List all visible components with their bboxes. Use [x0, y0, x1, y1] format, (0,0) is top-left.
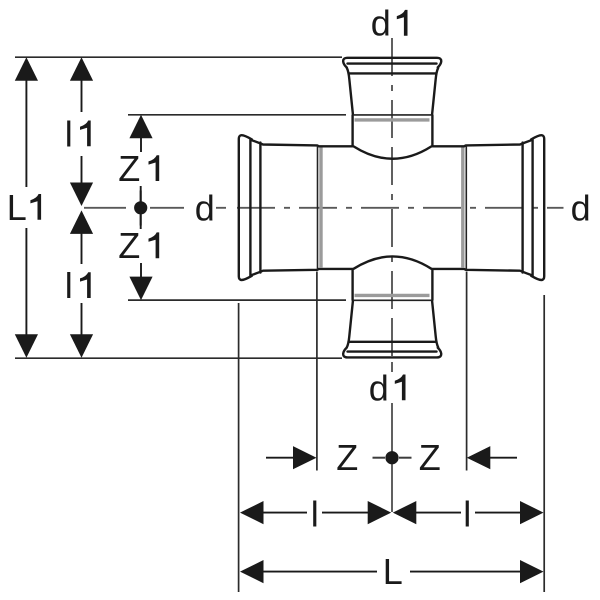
svg-text:L: L: [383, 551, 403, 592]
svg-text:Z: Z: [118, 148, 140, 189]
bottom-left body/neck outline: [252, 269, 353, 348]
svg-text:l: l: [65, 265, 73, 306]
center reference dot (Z1): [134, 201, 147, 214]
svg-text:d: d: [371, 3, 391, 44]
bottom insertion mark: [355, 294, 430, 297]
vertical centerline solid extension through Z dot to l dimension: [391, 403, 393, 512]
top insertion mark: [355, 118, 430, 121]
svg-text:L: L: [7, 187, 27, 228]
top-left body/neck outline: [252, 68, 353, 147]
left press bead inner tangent: [249, 140, 251, 277]
top press bead (d1 socket): [343, 58, 441, 68]
right socket flare-sleeve tangent: [521, 143, 523, 273]
fitting body outline: [239, 58, 544, 358]
extension line bottom socket joint (Z1 lower): [128, 299, 346, 301]
dimension L row: [240, 560, 544, 583]
extension line bottom (fitting bottom): [15, 357, 342, 359]
svg-text:Z: Z: [419, 437, 441, 478]
right socket joint line: [465, 146, 467, 270]
left socket joint line: [317, 146, 319, 270]
bottom press bead (d1 socket): [343, 348, 441, 358]
ticks beside Z dot: [373, 457, 386, 459]
extension line right insertion mark (Z): [466, 272, 468, 471]
svg-text:l: l: [311, 494, 319, 535]
tick through Z1 dot: [140, 191, 142, 226]
extension lines: [15, 57, 544, 592]
left press bead: [239, 135, 252, 280]
svg-text:d: d: [369, 367, 389, 408]
extension line fitting left end: [238, 303, 240, 592]
svg-text:Z: Z: [118, 225, 140, 266]
right press bead: [531, 135, 544, 280]
top branch fillet dome: [354, 147, 431, 159]
extension line left insertion mark (Z): [316, 272, 318, 471]
right insertion mark: [461, 148, 464, 269]
left insertion mark: [319, 148, 322, 269]
horizontal centerline (axis d): [84, 207, 564, 209]
top socket flare-sleeve tangent: [349, 72, 436, 74]
dimension Z1 lower: [129, 213, 152, 301]
top socket joint line: [353, 114, 432, 116]
top press bead inner tangent: [348, 62, 437, 64]
bottom socket flare-sleeve tangent: [349, 341, 436, 343]
extension line top socket joint (Z1 upper): [128, 114, 346, 116]
dimension L1: [15, 57, 38, 358]
vertical centerline (axis d1): [391, 38, 393, 372]
extension line fitting right end: [543, 295, 545, 592]
gray insertion-depth marks: [321, 120, 463, 296]
bottom-right body/neck outline: [432, 269, 531, 348]
bottom branch fillet dome: [354, 256, 431, 268]
dimension l1 lower: [70, 210, 93, 357]
socket joint lines: [318, 115, 467, 300]
right press bead inner tangent: [531, 140, 533, 277]
svg-text:d: d: [571, 188, 591, 229]
extension line top (fitting top): [15, 56, 342, 58]
top-right body/neck outline: [432, 68, 531, 147]
left socket flare-sleeve tangent: [259, 143, 261, 273]
dimension Z left: [266, 446, 317, 469]
center reference dot (Z): [385, 451, 398, 464]
dimension l1 upper: [70, 57, 93, 206]
svg-text:l: l: [463, 494, 471, 535]
dimension l row: [240, 501, 544, 524]
bottom socket joint line: [353, 299, 432, 301]
svg-text:l: l: [65, 113, 73, 154]
svg-text:d: d: [195, 188, 215, 229]
dimension Z right: [467, 446, 517, 469]
svg-text:Z: Z: [336, 437, 358, 478]
dimension Z1 upper: [129, 115, 152, 203]
bottom press bead inner tangent: [348, 350, 437, 352]
